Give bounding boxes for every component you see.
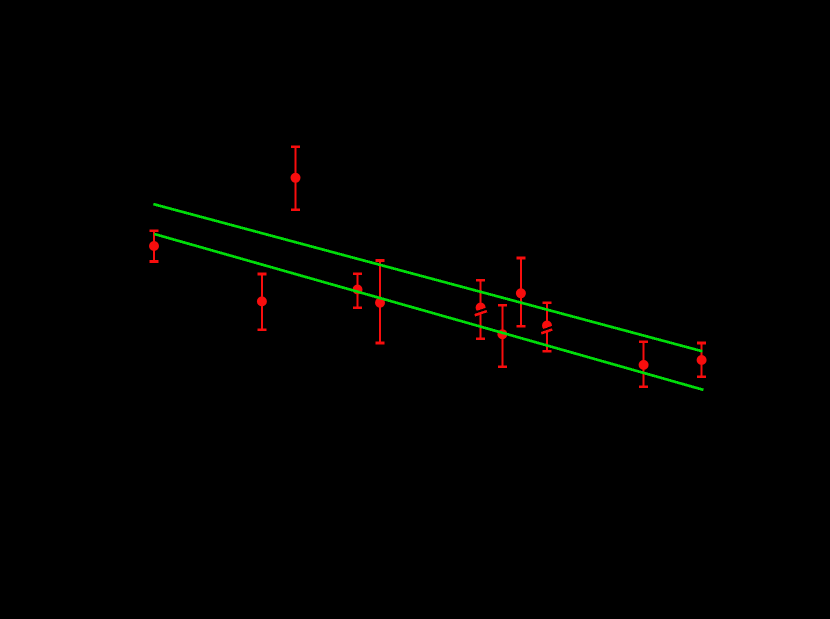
data point P7 with error bar [497,305,507,367]
data point P3 with error bar [291,147,301,210]
data point P4 with error bar [353,274,363,308]
upper fit line (green) [153,204,702,351]
data point P11 with error bar [697,343,707,377]
data point P2 with error bar [257,274,267,330]
data point P10 with error bar [639,342,649,387]
data point P8 with error bar [516,258,526,326]
data point P5 with error bar [375,261,385,344]
lower fit line (green) [154,234,703,390]
data point P9 with error bar and slash mark [541,303,553,351]
data point P6 with error bar and slash mark [474,280,487,339]
data point P1 with error bar [149,231,159,262]
